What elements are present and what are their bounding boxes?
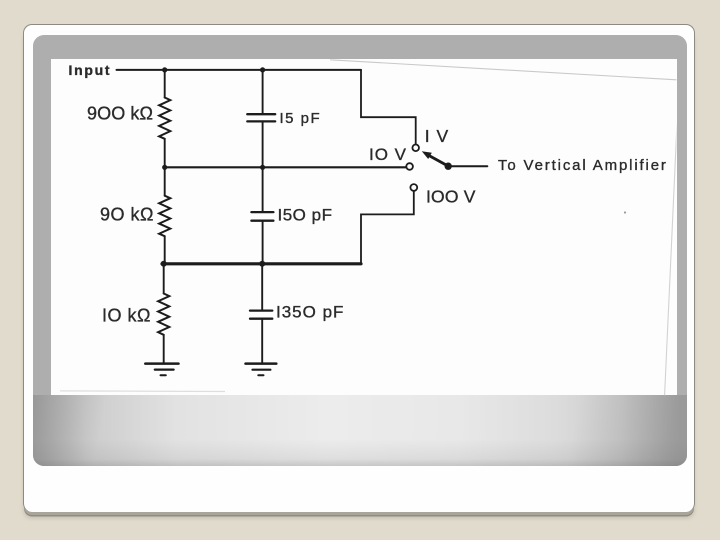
svg-text:IO V: IO V <box>369 145 407 164</box>
svg-text:I V: I V <box>425 126 449 146</box>
svg-text:9O kΩ: 9O kΩ <box>100 205 154 225</box>
svg-text:9OO kΩ: 9OO kΩ <box>87 104 153 124</box>
svg-text:IOO V: IOO V <box>426 187 476 207</box>
svg-text:Input: Input <box>69 62 112 78</box>
svg-text:To Vertical Amplifier: To Vertical Amplifier <box>498 157 668 174</box>
svg-text:I5 pF: I5 pF <box>280 110 322 127</box>
svg-text:IO kΩ: IO kΩ <box>102 306 151 326</box>
svg-text:I35O pF: I35O pF <box>276 303 344 322</box>
svg-text:I5O pF: I5O pF <box>278 205 333 224</box>
